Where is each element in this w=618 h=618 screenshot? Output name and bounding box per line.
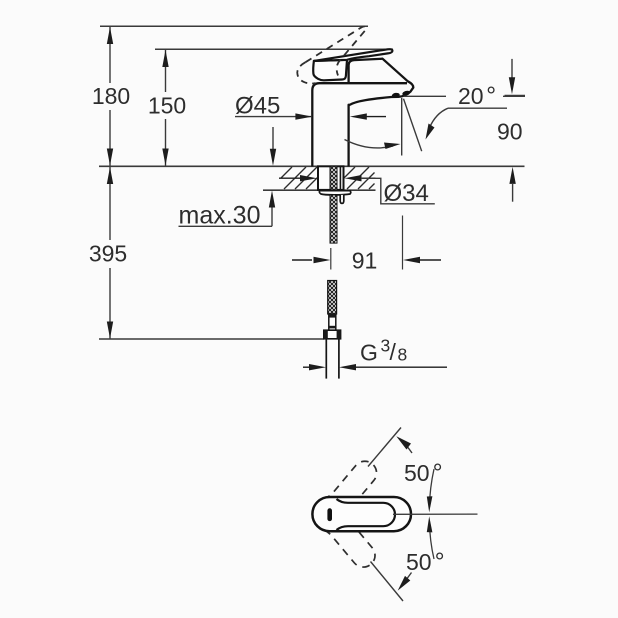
counter bottom line xyxy=(263,189,376,191)
counter hatching left xyxy=(281,167,318,189)
dimension 91 left arrow xyxy=(292,259,312,261)
dimension 91 right arrow xyxy=(420,259,441,261)
threaded rod in counter xyxy=(330,166,337,190)
dashed raised handle grip arc xyxy=(297,62,315,83)
svg-text:Ø45: Ø45 xyxy=(235,93,280,120)
counter hatching right xyxy=(344,167,375,189)
handle lever (solid, down position) xyxy=(314,49,393,61)
angle fan lower arc arrow xyxy=(429,522,434,560)
shank nut through counter xyxy=(318,166,344,190)
hose connector xyxy=(329,314,336,330)
dimension 180 vertical line xyxy=(109,27,111,166)
threaded rod below counter xyxy=(330,195,337,243)
G3/8 dimension arrows xyxy=(303,366,309,368)
dimension 180 arrowheads xyxy=(107,27,113,44)
water stream 20 degree line xyxy=(404,99,422,152)
nut inner line xyxy=(339,166,341,190)
svg-text:8: 8 xyxy=(398,345,408,365)
top view dark slot xyxy=(327,508,332,521)
svg-text:150: 150 xyxy=(148,93,186,119)
washer under counter xyxy=(319,191,350,195)
dimension Ø45 inner arrow at neck xyxy=(365,116,386,118)
svg-text:G: G xyxy=(360,340,378,366)
angle fan upper arc arrow xyxy=(429,469,434,507)
dashed raised handle lever outer edge xyxy=(306,26,367,62)
dimension 90 top tick xyxy=(505,95,526,97)
91 left extension line xyxy=(330,248,332,270)
handle grip (solid, down position) xyxy=(313,60,347,81)
upper 50 arrow leader xyxy=(400,439,412,453)
Ø45 extension line down to counter with arrow xyxy=(272,127,274,150)
centerline xyxy=(393,513,478,515)
hose end reference line (bottom of 395) xyxy=(99,338,324,340)
svg-text:max.30: max.30 xyxy=(179,202,261,230)
dimension 150 arrowheads xyxy=(162,50,168,67)
svg-text:20°: 20° xyxy=(458,82,496,110)
upper 50 degree line xyxy=(368,428,401,467)
label 20 underline xyxy=(448,107,507,109)
svg-text:90: 90 xyxy=(497,119,523,145)
dimension 150 vertical line xyxy=(165,50,167,166)
dimension 91 right extension line xyxy=(402,216,404,270)
dimension Ø45 underline and arrow xyxy=(235,116,311,118)
leader arc from 20 label to stream xyxy=(429,108,449,130)
max.30 underline xyxy=(179,225,273,227)
dashed lever rotated up 50 xyxy=(323,454,384,519)
dashed lever rotated down 50 xyxy=(321,510,382,575)
shank arrows at counter xyxy=(279,177,300,179)
max.30 vertical with up arrow at counter bottom xyxy=(271,205,273,226)
connection pipe G3/8 xyxy=(325,339,327,379)
hose nut xyxy=(324,330,341,339)
dashed raised handle inner edge xyxy=(337,60,340,75)
small nipple under washer xyxy=(340,195,344,204)
dimension 90 up arrow xyxy=(509,167,515,184)
faucet body outline xyxy=(312,83,407,166)
dimension Ø34 leader polyline and arrow xyxy=(361,178,435,204)
spout tip level line (ref for 90) xyxy=(404,95,526,97)
svg-text:Ø34: Ø34 xyxy=(384,180,429,207)
dimension 395 arrowheads xyxy=(107,167,113,184)
counter top line xyxy=(99,165,525,167)
svg-text:/: / xyxy=(390,339,397,365)
faucet cap and spout outline xyxy=(349,59,414,167)
svg-text:395: 395 xyxy=(89,241,127,267)
reference line top (raised handle level) xyxy=(100,25,368,27)
spout aerator dark blobs xyxy=(391,92,400,98)
top view outer pill (handle escutcheon) xyxy=(312,497,411,531)
top view inner lever outline xyxy=(337,499,396,530)
svg-text:50°: 50° xyxy=(406,548,445,576)
braided flex hose upper stub xyxy=(328,281,337,315)
lower 50 degree line xyxy=(371,562,404,602)
svg-text:50°: 50° xyxy=(404,459,443,487)
label 20 degrees background mask xyxy=(446,80,503,108)
water stream vertical reference line xyxy=(401,98,403,156)
reference line (handle tip level) xyxy=(155,48,393,50)
swing arc with arrow pointing at vertical line xyxy=(345,140,394,148)
dimension 90 down arrow xyxy=(511,59,513,80)
dimension 395 vertical line xyxy=(109,167,111,339)
svg-text:91: 91 xyxy=(352,248,378,274)
lower 50 arrow leader xyxy=(402,573,412,587)
svg-text:180: 180 xyxy=(92,83,130,109)
